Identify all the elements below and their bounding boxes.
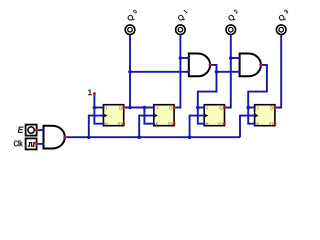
AND gate U7 (E AND Clk) xyxy=(42,126,66,149)
junction Q0 pin drop on Q0 run xyxy=(128,106,132,110)
JK flip-flop U4 (bit 3) xyxy=(253,105,276,126)
wire FF3 J stub xyxy=(198,107,204,109)
wire constant 1 to FF1 K xyxy=(94,94,103,124)
wire Q2 to AND2 upper input xyxy=(231,57,240,59)
junction Q2 branch to AND2 xyxy=(229,56,233,60)
wire Q0 branch to FF2.K xyxy=(144,108,153,124)
wire clock drop to FF4 xyxy=(240,116,255,138)
wire clock drop to FF1 xyxy=(89,116,104,138)
JK flip-flop U1 (bit 0) xyxy=(102,105,125,126)
wire Clk to AND3 lower input xyxy=(37,143,44,145)
junction FF3 J branch xyxy=(196,106,200,110)
wire clock drop to FF3 xyxy=(190,116,205,138)
wire Q1 to AND1 upper input xyxy=(180,57,188,59)
wire Q0 pin drop xyxy=(129,34,131,107)
junction AND1 out branch to AND2 xyxy=(215,70,219,74)
wire FF1 J stub xyxy=(94,107,103,109)
wire FF3 Q run xyxy=(224,107,230,109)
junction FF4 J branch xyxy=(246,106,250,110)
junction clock bus to FF1 xyxy=(87,135,91,139)
junction Q0 branch to FF2.K xyxy=(143,106,147,110)
wire Q2 pin drop xyxy=(224,34,230,107)
wire clock drop to FF2 xyxy=(139,116,154,138)
wire AND1 output to AND2 lower input xyxy=(217,71,240,73)
label Q2 xyxy=(227,9,240,22)
wire gated clock bus xyxy=(65,136,241,138)
JK flip-flop U3 (bit 2) xyxy=(203,105,226,126)
AND gate U6 (AND1 AND Q2) xyxy=(238,54,262,77)
label Q1 xyxy=(177,9,190,22)
wire Q3 pin drop xyxy=(275,34,281,107)
input pin E xyxy=(18,125,38,136)
wire E to AND3 upper input xyxy=(37,129,44,131)
output pin Q1 xyxy=(176,25,186,35)
constant 1 xyxy=(88,89,92,95)
AND gate U5 (Q0 AND Q1) xyxy=(188,54,212,77)
wire Q0 to AND1 lower input xyxy=(130,71,189,73)
wire Q0 run FF1.Q to FF2.J xyxy=(124,107,154,109)
clock input Clk xyxy=(14,138,38,149)
wire Q1 pin drop xyxy=(174,34,180,107)
output pin Q3 xyxy=(276,25,286,35)
wire AND1 output to FF3 J and K xyxy=(198,65,217,124)
junction FF1 J branch xyxy=(93,106,97,110)
JK flip-flop U2 (bit 1) xyxy=(153,105,176,126)
junction Q1 branch to AND1 xyxy=(179,56,183,60)
label Q0 xyxy=(126,9,139,22)
junction clock bus to FF2 xyxy=(137,135,141,139)
output pin Q2 xyxy=(226,25,236,35)
label Q3 xyxy=(278,9,291,22)
output pin Q0 xyxy=(125,25,135,35)
junction clock bus to FF3 xyxy=(188,135,192,139)
wire FF4 J stub xyxy=(248,107,254,109)
junction Q0 branch to AND1 xyxy=(128,70,132,74)
wire AND2 output to FF4 J and K xyxy=(248,65,267,124)
